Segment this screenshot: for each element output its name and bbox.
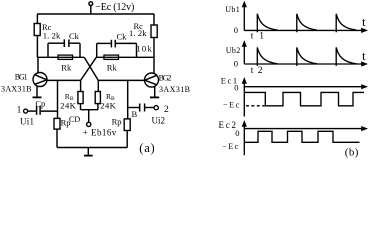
svg-text:t: t bbox=[251, 32, 254, 42]
svg-text:BG2: BG2 bbox=[159, 73, 172, 82]
svg-text:24K: 24K bbox=[60, 101, 76, 111]
svg-text:−Ec (12v): −Ec (12v) bbox=[95, 2, 134, 13]
svg-text:0: 0 bbox=[234, 25, 238, 35]
svg-text:Ec2: Ec2 bbox=[219, 120, 237, 130]
svg-text:10k: 10k bbox=[136, 44, 152, 54]
svg-text:3AX31B: 3AX31B bbox=[1, 85, 32, 94]
svg-text:Ck: Ck bbox=[117, 32, 128, 42]
svg-text:0: 0 bbox=[234, 83, 238, 93]
svg-text:t: t bbox=[362, 14, 366, 29]
svg-text:3AX31B: 3AX31B bbox=[159, 85, 190, 94]
svg-text:CD: CD bbox=[69, 115, 80, 124]
svg-text:Ub2: Ub2 bbox=[226, 46, 240, 55]
svg-text:1: 1 bbox=[259, 32, 264, 42]
svg-text:Rp: Rp bbox=[112, 117, 122, 127]
svg-text:Ui1: Ui1 bbox=[20, 116, 34, 126]
svg-text:(b): (b) bbox=[345, 146, 359, 158]
svg-text:24K: 24K bbox=[100, 101, 116, 111]
svg-text:Rc: Rc bbox=[134, 21, 144, 31]
svg-text:2: 2 bbox=[164, 105, 169, 115]
svg-text:−Ec: −Ec bbox=[223, 101, 240, 110]
svg-text:Ck: Ck bbox=[69, 31, 80, 41]
svg-text:Rk: Rk bbox=[61, 62, 72, 72]
svg-text:Cp: Cp bbox=[35, 98, 45, 108]
svg-text:−Ec: −Ec bbox=[222, 142, 238, 151]
svg-text:0: 0 bbox=[235, 128, 239, 138]
svg-text:2: 2 bbox=[258, 66, 263, 76]
svg-text:(a): (a) bbox=[139, 141, 154, 155]
svg-text:B: B bbox=[132, 109, 138, 119]
svg-text:0: 0 bbox=[234, 59, 238, 69]
svg-text:Rk: Rk bbox=[107, 62, 118, 72]
svg-text:t: t bbox=[362, 48, 366, 63]
svg-text:+ Eb16v: + Eb16v bbox=[83, 127, 117, 137]
svg-text:1. 2k: 1. 2k bbox=[43, 31, 61, 41]
svg-text:BG1: BG1 bbox=[15, 72, 28, 81]
svg-text:Ui2: Ui2 bbox=[152, 115, 166, 125]
svg-text:Ub1: Ub1 bbox=[225, 5, 239, 14]
svg-text:t: t bbox=[251, 66, 254, 76]
svg-text:1: 1 bbox=[17, 104, 22, 114]
svg-text:Rp: Rp bbox=[61, 118, 71, 128]
